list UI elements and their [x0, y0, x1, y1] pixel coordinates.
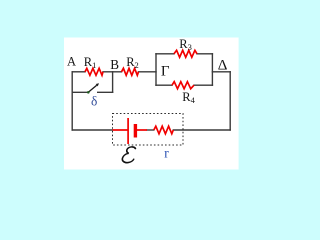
- svg-text:Δ: Δ: [218, 58, 228, 74]
- svg-text:A: A: [67, 55, 76, 69]
- svg-text:r: r: [164, 146, 169, 161]
- svg-text:Γ: Γ: [161, 64, 170, 80]
- svg-text:B: B: [110, 57, 119, 72]
- svg-text:δ: δ: [91, 94, 97, 109]
